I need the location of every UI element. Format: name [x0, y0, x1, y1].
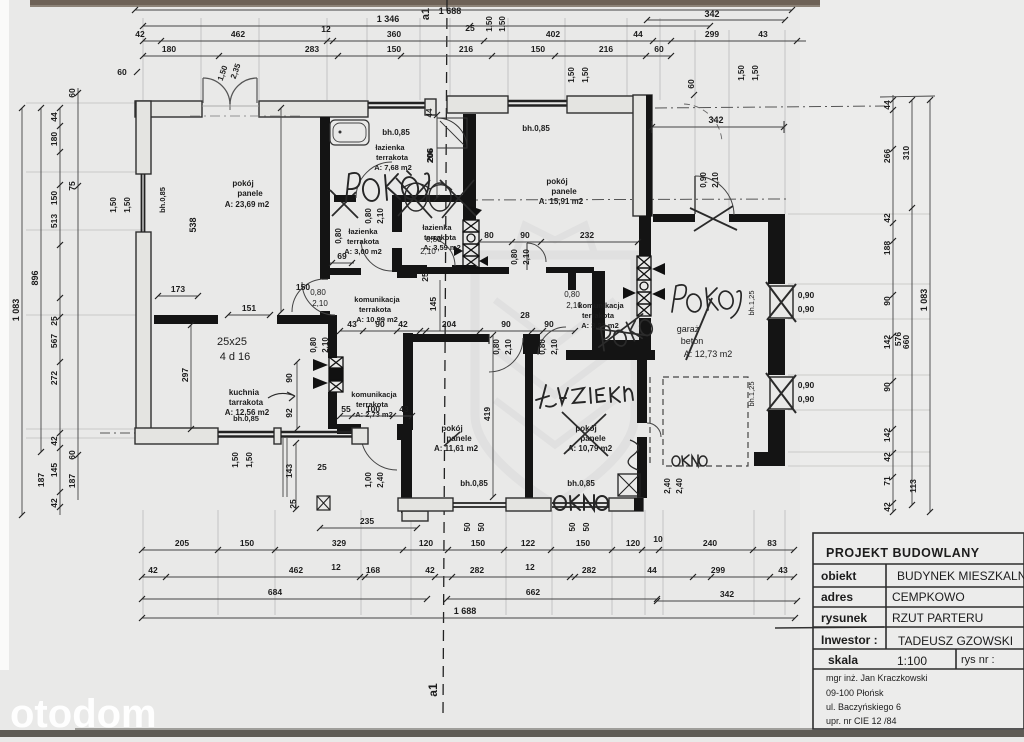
- svg-text:42: 42: [398, 319, 408, 329]
- svg-text:upr. nr CIE 12 /84: upr. nr CIE 12 /84: [826, 716, 897, 726]
- svg-text:188: 188: [882, 241, 892, 255]
- svg-text:55: 55: [341, 404, 351, 414]
- svg-text:0,80: 0,80: [334, 228, 343, 244]
- svg-text:310: 310: [901, 146, 911, 160]
- top wall pokoj 11,61: [413, 334, 489, 342]
- svg-text:567: 567: [49, 334, 59, 348]
- svg-text:50: 50: [477, 522, 486, 531]
- svg-text:panele: panele: [551, 187, 577, 196]
- svg-text:2,10: 2,10: [522, 249, 531, 265]
- svg-text:0,90: 0,90: [798, 394, 815, 404]
- small flue below kitchen: [317, 496, 330, 510]
- extension lines: [142, 18, 144, 100]
- svg-text:0,80: 0,80: [309, 337, 318, 353]
- svg-text:bh.0,85: bh.0,85: [233, 414, 259, 423]
- door leaf+arc pokoj 15,91: [526, 243, 528, 270]
- svg-text:10: 10: [653, 534, 663, 544]
- svg-text:terrakota: terrakota: [582, 311, 615, 320]
- svg-text:142: 142: [882, 335, 892, 349]
- left exterior wall (outlined boxes): [136, 101, 151, 174]
- small slash over 11,61: [444, 432, 460, 446]
- svg-text:2,40: 2,40: [376, 472, 385, 488]
- X scribbles over basins: [396, 178, 432, 218]
- svg-text:bh.0,85: bh.0,85: [567, 479, 595, 488]
- svg-text:1:100: 1:100: [897, 654, 927, 668]
- svg-text:50: 50: [582, 522, 591, 531]
- kitchen arrow scribble: [268, 392, 295, 401]
- top window band 508-567: [508, 100, 567, 102]
- svg-text:RZUT PARTERU: RZUT PARTERU: [892, 611, 983, 625]
- komunikacja 3,23 east walls: [592, 271, 605, 353]
- svg-text:44: 44: [647, 565, 657, 575]
- svg-text:łazienka: łazienka: [375, 143, 405, 152]
- svg-text:kuchnia: kuchnia: [229, 388, 260, 397]
- svg-text:łazienka: łazienka: [422, 223, 452, 232]
- faint watermark crest: [475, 225, 635, 505]
- svg-text:662: 662: [526, 587, 540, 597]
- svg-text:25: 25: [420, 272, 430, 282]
- svg-text:342: 342: [704, 9, 719, 19]
- svg-text:283: 283: [305, 44, 319, 54]
- svg-text:187: 187: [36, 473, 46, 487]
- svg-text:83: 83: [767, 538, 777, 548]
- svg-text:1,50: 1,50: [485, 16, 494, 32]
- svg-text:rysunek: rysunek: [821, 611, 867, 625]
- top window band 368-425: [368, 102, 425, 104]
- svg-text:a1: a1: [426, 683, 440, 697]
- bathrooms middle wall: [334, 195, 356, 202]
- svg-text:1,50: 1,50: [123, 197, 132, 213]
- svg-text:120: 120: [626, 538, 640, 548]
- svg-text:42: 42: [49, 498, 59, 508]
- pokoj 23,69 east wall: [320, 117, 330, 279]
- scrawl POKOJ bathroom: [346, 171, 429, 202]
- wash basins scribbled: [405, 183, 427, 211]
- garage width dim: [652, 126, 784, 128]
- svg-text:A: 3,00 m2: A: 3,00 m2: [344, 247, 382, 256]
- svg-text:panele: panele: [446, 434, 472, 443]
- kitchen east wall: [328, 324, 337, 358]
- svg-text:44: 44: [425, 108, 434, 117]
- svg-text:tarrakota: tarrakota: [229, 398, 264, 407]
- svg-text:513: 513: [49, 214, 59, 228]
- door arc to pokoj 10,79: [538, 327, 566, 355]
- svg-text:80: 80: [484, 230, 494, 240]
- top wall pokoj 10,79: [566, 350, 655, 360]
- svg-text:09-100 Płońsk: 09-100 Płońsk: [826, 688, 884, 698]
- svg-text:43: 43: [347, 319, 357, 329]
- scrawl LAZIENKA: [536, 385, 633, 408]
- svg-text:50: 50: [568, 522, 577, 531]
- svg-text:44: 44: [633, 29, 643, 39]
- svg-text:2,40: 2,40: [663, 478, 672, 494]
- svg-text:1,50: 1,50: [737, 65, 746, 81]
- svg-text:150: 150: [471, 538, 485, 548]
- svg-text:42: 42: [135, 29, 145, 39]
- svg-text:75: 75: [67, 181, 77, 191]
- svg-text:90: 90: [544, 319, 554, 329]
- bottom wall pokoj 15,91: [397, 266, 417, 278]
- scrawl Pokoj garage: [672, 285, 741, 318]
- svg-text:12: 12: [321, 24, 331, 34]
- svg-text:1 083: 1 083: [919, 289, 929, 312]
- scrawl OKNO garage: [672, 455, 707, 466]
- svg-text:180: 180: [162, 44, 176, 54]
- svg-text:terrakota: terrakota: [376, 153, 409, 162]
- svg-text:90: 90: [375, 319, 385, 329]
- top dimension row B: [143, 25, 710, 27]
- svg-text:0,90: 0,90: [798, 380, 815, 390]
- svg-text:272: 272: [49, 371, 59, 385]
- svg-text:obiekt: obiekt: [821, 569, 856, 583]
- svg-text:bh.1,25: bh.1,25: [747, 290, 756, 315]
- svg-text:2,10: 2,10: [711, 172, 720, 188]
- svg-text:0,80: 0,80: [510, 249, 519, 265]
- svg-text:25: 25: [465, 23, 475, 33]
- wc scribble right wall: [628, 440, 638, 470]
- svg-text:2,10: 2,10: [550, 339, 559, 355]
- top dimension row C: [143, 40, 806, 42]
- door arc to pokoj 11,61: [489, 338, 523, 372]
- svg-text:299: 299: [705, 29, 719, 39]
- shower corner: [437, 118, 467, 148]
- title block: [813, 533, 1024, 729]
- svg-text:0,90: 0,90: [798, 304, 815, 314]
- flue stack S1: [329, 357, 343, 392]
- svg-text:adres: adres: [821, 590, 853, 604]
- svg-text:329: 329: [332, 538, 346, 548]
- svg-text:2,10: 2,10: [376, 208, 385, 224]
- garage dashed floor rectangle: [663, 377, 748, 466]
- garage west door arc: [647, 423, 661, 437]
- svg-text:896: 896: [30, 270, 40, 285]
- wall west of pokoj 11,61: [403, 333, 413, 430]
- svg-text:0,80: 0,80: [310, 288, 326, 297]
- svg-text:2,10: 2,10: [504, 339, 513, 355]
- bathroom 3,59 bottom wall: [397, 265, 427, 272]
- svg-text:142: 142: [882, 428, 892, 442]
- svg-text:A: 23,69 m2: A: 23,69 m2: [225, 200, 270, 209]
- svg-text:CEMPKOWO: CEMPKOWO: [892, 590, 965, 604]
- svg-text:otodom: otodom: [10, 692, 157, 736]
- garage window 1 crossed: [770, 286, 793, 318]
- svg-text:206: 206: [425, 148, 435, 162]
- svg-text:44: 44: [49, 112, 59, 122]
- svg-text:71: 71: [882, 476, 892, 486]
- bottom wall rooms (outlined): [398, 498, 453, 511]
- svg-text:419: 419: [482, 407, 492, 421]
- svg-text:150: 150: [387, 44, 401, 54]
- left window band 174-232: [141, 174, 143, 232]
- svg-text:2,10: 2,10: [321, 337, 330, 353]
- svg-text:28: 28: [520, 310, 530, 320]
- svg-text:25x25: 25x25: [217, 336, 247, 348]
- west wall pokoj 15,91: [463, 114, 476, 220]
- scrawl OKNO room: [554, 495, 608, 510]
- bottom dimension rows: [142, 549, 794, 551]
- svg-text:60: 60: [654, 44, 664, 54]
- svg-text:69: 69: [337, 251, 347, 261]
- svg-text:ul. Baczyńskiego 6: ul. Baczyńskiego 6: [826, 702, 901, 712]
- door arc bathroom 3,00: [361, 240, 392, 271]
- svg-text:60: 60: [67, 88, 77, 98]
- svg-text:pokój: pokój: [232, 179, 253, 188]
- svg-text:2,40: 2,40: [675, 478, 684, 494]
- svg-text:0,80: 0,80: [426, 235, 442, 244]
- svg-text:A: 10,79 m2: A: 10,79 m2: [568, 444, 613, 453]
- bottom window band 2 (okno): [552, 502, 609, 504]
- svg-text:1 688: 1 688: [454, 606, 477, 616]
- svg-text:0,90: 0,90: [699, 172, 708, 188]
- right dimension chains: [892, 95, 894, 512]
- svg-text:402: 402: [546, 29, 560, 39]
- svg-text:1,50: 1,50: [751, 65, 760, 81]
- svg-text:90: 90: [501, 319, 511, 329]
- garage window 2 crossed: [770, 377, 793, 409]
- middle wall between 11,61 and 10,79: [525, 338, 533, 498]
- svg-text:462: 462: [231, 29, 245, 39]
- svg-text:skala: skala: [828, 653, 858, 667]
- svg-text:2,10: 2,10: [312, 299, 328, 308]
- roof overhang dashed line right: [655, 106, 885, 108]
- interior vertical dim lines: [280, 108, 282, 312]
- svg-text:60: 60: [117, 67, 127, 77]
- scrawl small Pokoj crossed: [593, 312, 655, 353]
- svg-text:216: 216: [599, 44, 613, 54]
- svg-text:42: 42: [882, 213, 892, 223]
- svg-text:342: 342: [720, 589, 734, 599]
- svg-text:216: 216: [459, 44, 473, 54]
- svg-text:266: 266: [882, 149, 892, 163]
- komunikacja 2,73 bottom wall: [337, 424, 361, 434]
- svg-text:684: 684: [268, 587, 282, 597]
- svg-text:342: 342: [708, 115, 723, 125]
- svg-text:100: 100: [366, 404, 380, 414]
- garage right wall: [768, 214, 785, 284]
- svg-text:204: 204: [442, 319, 456, 329]
- svg-text:44: 44: [882, 100, 892, 110]
- door arc bathroom 3,59: [427, 238, 455, 266]
- bottom scan strip: [0, 730, 1024, 737]
- svg-text:538: 538: [188, 217, 198, 232]
- svg-text:150: 150: [296, 282, 310, 292]
- svg-text:A: 15,91 m2: A: 15,91 m2: [539, 197, 584, 206]
- svg-text:150: 150: [576, 538, 590, 548]
- svg-text:120: 120: [419, 538, 433, 548]
- svg-text:92: 92: [284, 408, 294, 418]
- kitchen bottom wall (outlined boxes): [135, 428, 218, 444]
- svg-text:bh.1,25: bh.1,25: [747, 381, 756, 406]
- svg-text:42: 42: [148, 565, 158, 575]
- svg-text:1,50: 1,50: [581, 67, 590, 83]
- svg-text:235: 235: [360, 516, 374, 526]
- svg-text:1,50: 1,50: [498, 16, 507, 32]
- scribble X over garage door: [690, 206, 737, 231]
- door arc komunikacja west: [302, 282, 335, 315]
- svg-text:komunikacja: komunikacja: [578, 301, 624, 310]
- svg-text:180: 180: [49, 132, 59, 146]
- svg-text:1,00: 1,00: [364, 472, 373, 488]
- svg-text:2,10: 2,10: [566, 301, 582, 310]
- svg-text:90: 90: [882, 382, 892, 392]
- svg-text:122: 122: [521, 538, 535, 548]
- door arc 1,00/2,40: [361, 434, 397, 470]
- top dimension row A 1688: [135, 9, 792, 11]
- svg-text:113: 113: [908, 479, 918, 493]
- svg-text:0,80: 0,80: [564, 290, 580, 299]
- svg-text:bh.0,85: bh.0,85: [158, 187, 167, 213]
- svg-text:terrakota: terrakota: [359, 305, 392, 314]
- washing machine pokoj 10,79: [618, 474, 640, 496]
- svg-text:90: 90: [520, 230, 530, 240]
- exterior top wall segments (outlined boxes): [135, 101, 202, 117]
- svg-text:1,50: 1,50: [567, 67, 576, 83]
- svg-text:43: 43: [778, 565, 788, 575]
- svg-text:pokój: pokój: [546, 177, 567, 186]
- left dimension chains: [21, 108, 23, 515]
- door arc pokoj 23,69: [292, 279, 325, 312]
- svg-text:1,50: 1,50: [109, 197, 118, 213]
- svg-text:299: 299: [711, 565, 725, 575]
- svg-text:12: 12: [525, 562, 535, 572]
- svg-text:297: 297: [180, 368, 190, 382]
- svg-text:282: 282: [470, 565, 484, 575]
- svg-text:A: 11,61 m2: A: 11,61 m2: [434, 444, 479, 453]
- svg-text:1 688: 1 688: [439, 6, 462, 16]
- svg-text:4 d 16: 4 d 16: [220, 351, 251, 363]
- svg-text:terrakota: terrakota: [347, 237, 380, 246]
- entrance double door arcs (pointing down): [203, 78, 230, 104]
- svg-text:1,50: 1,50: [231, 452, 240, 468]
- svg-text:50: 50: [463, 522, 472, 531]
- kitchen window band 1: [218, 431, 274, 433]
- svg-text:rys nr :: rys nr :: [961, 654, 995, 666]
- svg-text:bh.0,85: bh.0,85: [522, 124, 550, 133]
- svg-text:462: 462: [289, 565, 303, 575]
- svg-text:42: 42: [882, 452, 892, 462]
- svg-text:143: 143: [284, 464, 294, 478]
- garage top wall and door: [653, 214, 695, 222]
- svg-text:panele: panele: [237, 189, 263, 198]
- svg-text:2,10: 2,10: [420, 247, 436, 256]
- svg-text:1 083: 1 083: [11, 299, 21, 322]
- top scan strip: [30, 0, 820, 7]
- bathroom 3,00 bottom wall: [330, 268, 361, 275]
- scribble X over door: [330, 190, 358, 218]
- flue stack S3: [637, 256, 651, 316]
- svg-text:PROJEKT BUDOWLANY: PROJEKT BUDOWLANY: [826, 546, 980, 560]
- svg-text:232: 232: [580, 230, 594, 240]
- svg-text:168: 168: [366, 565, 380, 575]
- svg-text:360: 360: [387, 29, 401, 39]
- svg-text:282: 282: [582, 565, 596, 575]
- svg-text:komunikacja: komunikacja: [351, 390, 397, 399]
- svg-text:60: 60: [67, 450, 77, 460]
- left scan edge: [0, 0, 9, 670]
- top dimension row D: [143, 55, 671, 57]
- svg-text:240: 240: [703, 538, 717, 548]
- svg-text:43: 43: [399, 404, 409, 414]
- svg-text:42: 42: [49, 436, 59, 446]
- X over label 10,79: [562, 412, 608, 456]
- pier 44: [425, 99, 436, 115]
- bathtub: [330, 120, 369, 145]
- garage door leaf+arc: [694, 176, 696, 214]
- svg-text:garaż: garaż: [677, 324, 700, 334]
- svg-text:25: 25: [317, 462, 327, 472]
- slash near LAZIENKA: [686, 298, 712, 360]
- bathroom divider wall: [392, 202, 402, 232]
- kitchen window band 2: [281, 431, 352, 433]
- svg-text:90: 90: [284, 373, 294, 383]
- svg-text:90: 90: [882, 296, 892, 306]
- svg-text:42: 42: [425, 565, 435, 575]
- flue stack S2: [463, 220, 479, 268]
- svg-text:łazienka: łazienka: [348, 227, 378, 236]
- svg-text:25: 25: [49, 316, 59, 326]
- section line a1: [443, 0, 447, 715]
- svg-text:1 346: 1 346: [377, 14, 400, 24]
- right wall of pokoj 15,91 / garage west band: [633, 95, 652, 216]
- svg-text:145: 145: [428, 297, 438, 311]
- svg-text:25: 25: [288, 499, 298, 509]
- svg-text:42: 42: [882, 502, 892, 512]
- door arc bathroom 7,68: [356, 162, 392, 198]
- svg-text:Inwestor :: Inwestor :: [821, 633, 878, 647]
- kitchen top wall: [154, 315, 218, 324]
- svg-text:145: 145: [49, 463, 59, 477]
- interior dims: [479, 241, 638, 243]
- svg-text:150: 150: [49, 191, 59, 205]
- svg-text:205: 205: [175, 538, 189, 548]
- svg-text:0,80: 0,80: [364, 208, 373, 224]
- svg-text:12: 12: [331, 562, 341, 572]
- svg-text:BUDYNEK MIESZKALNY: BUDYNEK MIESZKALNY: [897, 569, 1024, 583]
- svg-text:komunikacja: komunikacja: [354, 295, 400, 304]
- svg-text:0,90: 0,90: [798, 290, 815, 300]
- svg-text:187: 187: [67, 474, 77, 488]
- svg-text:TADEUSZ GZOWSKI: TADEUSZ GZOWSKI: [898, 634, 1013, 648]
- svg-text:150: 150: [531, 44, 545, 54]
- bottom window band 1: [453, 502, 506, 504]
- svg-text:bh.0,85: bh.0,85: [460, 479, 488, 488]
- svg-text:576: 576: [893, 332, 903, 346]
- svg-text:43: 43: [758, 29, 768, 39]
- svg-text:mgr inż. Jan Kraczkowski: mgr inż. Jan Kraczkowski: [826, 673, 928, 683]
- svg-text:1,50: 1,50: [245, 452, 254, 468]
- garage bottom-right wall: [754, 452, 785, 466]
- svg-text:173: 173: [171, 284, 185, 294]
- svg-text:151: 151: [242, 303, 256, 313]
- svg-text:150: 150: [240, 538, 254, 548]
- svg-text:60: 60: [686, 79, 696, 89]
- svg-text:0,80: 0,80: [538, 339, 547, 355]
- svg-text:bh.0,85: bh.0,85: [382, 128, 410, 137]
